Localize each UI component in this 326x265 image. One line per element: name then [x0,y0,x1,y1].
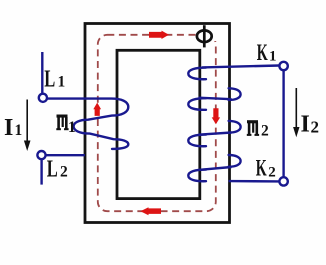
svg-text:2: 2 [60,164,68,181]
core window [117,50,200,198]
label I2 [301,112,320,138]
svg-text:1: 1 [269,48,277,64]
svg-text:2: 2 [261,122,269,139]
svg-text:L: L [44,66,55,92]
wire K1 lead [202,66,279,68]
flux arrow bottom (points left) [140,207,161,215]
label L2 [47,156,68,182]
core outer edge [85,24,230,223]
svg-text:L: L [47,156,58,182]
label W1 (turns symbol) [56,115,75,136]
flux arrow top (points right) [149,31,169,39]
terminal L1 [39,52,47,102]
label I1 [4,115,22,141]
current arrow I1 [24,100,31,152]
svg-text:2: 2 [268,164,276,180]
svg-text:2: 2 [311,117,320,136]
flux arrow right leg (points down) [212,108,220,124]
flux arrow left leg (points up) [93,103,101,116]
svg-text:K: K [256,156,267,181]
winding W1 (left leg coil) [47,99,128,149]
flux label Phi [197,25,218,47]
label K2 [256,156,276,181]
svg-text:1: 1 [68,119,76,136]
terminal L2 [37,151,45,185]
winding W2 (right leg coil) [188,68,240,182]
svg-text:1: 1 [58,74,66,91]
label K1 [257,40,277,65]
current arrow I2 [293,88,299,137]
wire L2 lead [46,154,85,156]
wire K2 lead [229,180,280,183]
terminal K2 [279,177,287,185]
svg-text:1: 1 [15,122,23,139]
svg-text:I: I [301,112,310,138]
svg-text:K: K [257,40,268,65]
flux path (red dashed loop) [98,35,216,211]
wire K1-K2 link [282,70,284,177]
label W2 (turns symbol) [247,120,269,139]
svg-text:I: I [4,115,13,141]
terminal K1 [279,62,287,70]
label L1 [44,66,65,92]
